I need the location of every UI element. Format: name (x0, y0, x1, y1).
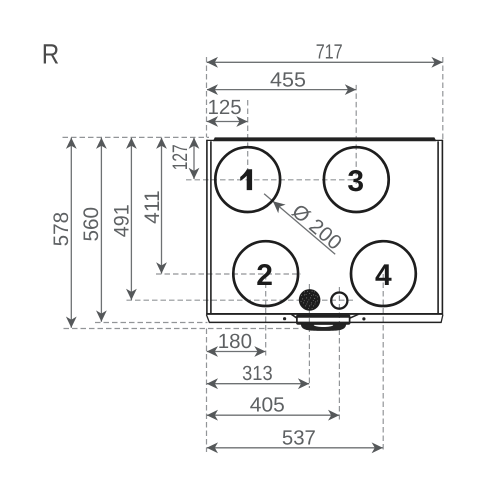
control bezel slant right (349, 314, 358, 318)
ext line igniter vertical (338, 287, 340, 420)
svg-text:455: 455 (270, 68, 306, 91)
burner circle 3 (324, 147, 389, 212)
dimension texts (50, 41, 346, 450)
dim 127 line (193, 138, 195, 179)
cooktop body (206, 140, 443, 323)
left outer edge (206, 140, 208, 315)
svg-text:405: 405 (250, 394, 285, 417)
screw right (362, 317, 365, 320)
svg-text:3: 3 (347, 165, 364, 198)
right inner edge (437, 141, 439, 314)
dim 455 line (207, 89, 356, 91)
ext line knob vertical (308, 284, 310, 388)
dim 578 line (70, 138, 72, 328)
svg-text:578: 578 (50, 212, 73, 247)
svg-text:491: 491 (110, 204, 133, 237)
burner circle 2 (233, 241, 298, 306)
ext line circles 1-3 center horizontal (186, 179, 356, 181)
dim diameter leader line (264, 194, 335, 255)
ext line circle1 center vertical (247, 100, 249, 184)
dim 125 line (207, 121, 248, 123)
dim 405 line (207, 414, 340, 416)
dim 491 line (130, 138, 132, 300)
burner circle 1 (215, 147, 280, 212)
top dark band (213, 137, 437, 141)
ext line circle3 center vertical (355, 85, 357, 184)
bottom-left corner slant (206, 315, 209, 323)
control bezel top thick edge (298, 315, 350, 318)
ext line circle2 center horizontal (156, 273, 301, 275)
svg-text:2: 2 (256, 259, 273, 292)
dim 717 line (207, 61, 443, 63)
ext line circle2 center vertical (265, 274, 267, 356)
igniter circle (white) (331, 293, 347, 309)
ext line control bottom horizontal (64, 328, 302, 330)
screw left (283, 317, 286, 320)
dim 537 line (207, 447, 383, 449)
left inner edge (210, 141, 212, 314)
svg-text:411: 411 (141, 190, 164, 223)
dim 313 line (207, 383, 310, 385)
svg-text:127: 127 (169, 144, 192, 170)
right outer edge (441, 140, 443, 315)
svg-text:537: 537 (282, 427, 316, 450)
ext line left-top vertical (206, 57, 208, 137)
svg-text:4: 4 (375, 259, 392, 292)
control handle white notch (314, 325, 333, 327)
svg-text:180: 180 (218, 330, 252, 353)
control knob (dark knurled) (299, 289, 321, 311)
arrowheads (66, 57, 443, 453)
control handle dark band (301, 323, 346, 331)
burner number 1 (240, 169, 252, 190)
ext line circle4 center vertical (382, 274, 384, 452)
dashed extension lines (63, 57, 443, 452)
svg-text:560: 560 (80, 207, 103, 242)
ext line top horizontal (63, 136, 210, 138)
burner circle 4 (351, 241, 416, 306)
ext line knob center horizontal (127, 299, 354, 301)
ext line left-bottom vertical (206, 329, 208, 453)
ext line right-top vertical (442, 57, 444, 140)
glass bottom edge (206, 313, 443, 315)
dim 411 line (161, 138, 163, 274)
svg-text:125: 125 (207, 96, 241, 119)
unit bottom edge (210, 321, 442, 323)
svg-text:717: 717 (316, 41, 343, 64)
dimension lines (71, 62, 442, 448)
dim 560 line (100, 138, 102, 322)
svg-text:R: R (42, 39, 60, 70)
control bezel slant left (291, 314, 297, 318)
bottom-right corner slant (441, 315, 443, 323)
ext line unit bottom horizontal (95, 322, 208, 324)
top edge thin line (207, 139, 443, 141)
svg-text:313: 313 (242, 362, 273, 385)
control bezel (297, 315, 350, 324)
dim 180 line (207, 351, 266, 353)
